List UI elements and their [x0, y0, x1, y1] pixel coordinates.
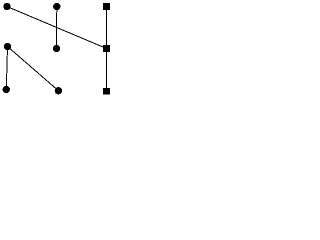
wire edge A-F (top-left circle to middle-right square): [7, 7, 107, 49]
node C (top-right square): [103, 3, 110, 10]
wire edge C-F-I (right column vertical through squares): [106, 7, 108, 92]
node G (bottom-left circle): [3, 86, 10, 93]
node E (middle circle): [53, 45, 60, 52]
node B (top-middle circle): [53, 3, 60, 10]
background: [0, 0, 116, 101]
node F (middle-right square): [103, 45, 110, 52]
node I (bottom-right square): [103, 88, 110, 95]
node A (top-left circle): [3, 3, 10, 10]
node D (middle-left circle): [4, 43, 11, 50]
node H (bottom-middle circle): [55, 87, 62, 94]
wire edge D-H (middle-left circle to bottom-middle circle): [8, 47, 59, 91]
wire edge B-E (top-middle circle down to middle circle): [56, 7, 58, 49]
wire edge D-G (middle-left circle down to bottom-left circle): [6, 47, 7, 90]
